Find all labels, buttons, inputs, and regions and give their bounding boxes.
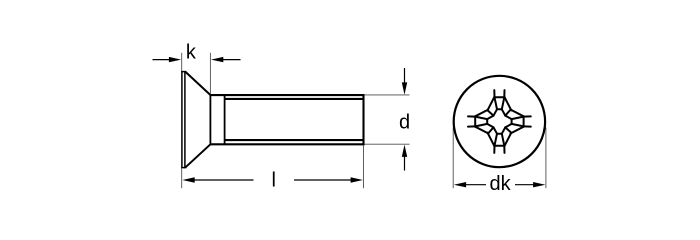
k extension right (209, 53, 211, 94)
k arrow right shaft (223, 59, 241, 61)
l arrow right head (351, 177, 363, 182)
recess arm N (488, 90, 512, 110)
d extension top (365, 94, 410, 96)
svg-text:k: k (186, 42, 197, 64)
d arrow bottom shaft (404, 155, 406, 171)
svg-text:l: l (271, 170, 275, 192)
shank outer bottom line (210, 143, 365, 145)
dk arrow left head (454, 182, 466, 187)
l arrow left head (182, 177, 194, 182)
recess corner SW (487, 124, 497, 134)
thread start line (224, 95, 226, 144)
recess corner NE (502, 109, 512, 119)
screw tip edge (362, 94, 364, 145)
k arrow left head (169, 57, 181, 62)
svg-text:d: d (399, 112, 410, 134)
svg-text:dk: dk (490, 173, 512, 195)
d arrow top shaft (404, 68, 406, 85)
dk extension right (545, 128, 547, 189)
d extension bottom (365, 143, 410, 145)
k arrow right head (211, 57, 223, 62)
dk dim line left segment (464, 184, 487, 186)
recess corner NW (487, 109, 497, 119)
recess arm W (468, 110, 488, 134)
recess arm S (488, 133, 512, 153)
d arrow bottom head (402, 145, 407, 157)
head-shank junction line (209, 94, 211, 145)
shank outer top line (210, 94, 365, 96)
recess corner SE (502, 124, 512, 134)
screw head land line (184, 71, 186, 168)
recess arm E (511, 110, 531, 134)
l dim line left segment (193, 179, 254, 181)
k extension left (181, 53, 183, 71)
screw head cone bottom (186, 144, 211, 167)
screw head top edge (181, 71, 186, 73)
screw head face line (181, 71, 183, 168)
l extension left (181, 169, 183, 189)
l dim line right segment (294, 179, 354, 181)
dimension k (153, 57, 241, 62)
dimension extension lines (182, 53, 546, 188)
head outline circle (top view) (454, 76, 545, 167)
dimension l (182, 177, 363, 182)
dk arrow right head (533, 182, 545, 187)
l extension right (363, 146, 365, 189)
phillips recess (468, 90, 531, 153)
screw head bottom edge (181, 167, 186, 169)
dimension d (402, 68, 407, 171)
dk dim line right segment (515, 184, 536, 186)
d arrow top head (402, 82, 407, 94)
thread inner top line (225, 98, 365, 100)
dk extension left (452, 128, 454, 189)
screw head cone top (186, 72, 211, 95)
k arrow left shaft (153, 59, 171, 61)
thread inner bottom line (225, 139, 365, 141)
dimension dk (454, 182, 546, 187)
